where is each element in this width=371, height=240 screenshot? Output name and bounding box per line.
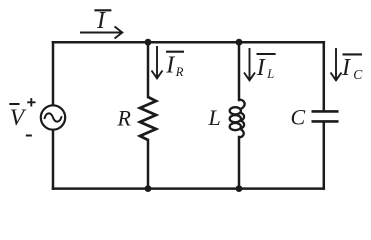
wire right upper [323, 42, 326, 110]
svg-text:R: R [117, 106, 132, 131]
wire left lower [52, 130, 55, 189]
wire top [53, 41, 324, 44]
wire branch R upper [147, 42, 150, 97]
junction dot top R [145, 39, 152, 46]
inductor L [230, 100, 245, 138]
wire branch R lower [147, 140, 150, 189]
svg-text:L: L [266, 67, 274, 81]
junction dot top L [236, 39, 243, 46]
current arrow I [80, 27, 122, 39]
minus sign [26, 135, 32, 137]
current arrow IL [244, 48, 255, 80]
source V1 [41, 105, 65, 129]
junction dot bottom R [145, 185, 152, 192]
svg-text:C: C [291, 105, 306, 130]
wire right lower [323, 123, 326, 189]
wire branch L upper [238, 42, 241, 100]
resistor R [140, 97, 156, 140]
current arrow IC [331, 48, 342, 80]
wire bottom [53, 187, 324, 190]
svg-text:L: L [208, 105, 221, 130]
label IL with overline [256, 54, 276, 81]
junction dot bottom L [236, 185, 243, 192]
svg-text:I: I [341, 55, 351, 81]
label IC with overline [341, 54, 363, 82]
label V [9, 104, 26, 131]
wire left upper [52, 42, 55, 105]
svg-text:R: R [175, 65, 184, 79]
svg-text:I: I [256, 55, 266, 81]
wire branch L lower [238, 137, 241, 189]
label I with overline [94, 8, 111, 34]
svg-text:C: C [353, 67, 363, 82]
label IR with overline [165, 52, 184, 79]
svg-text:V: V [10, 105, 27, 131]
capacitor C [312, 111, 339, 121]
current arrow IR [152, 46, 163, 78]
svg-text:I: I [165, 53, 175, 79]
plus sign [27, 98, 35, 106]
svg-text:I: I [96, 8, 106, 34]
